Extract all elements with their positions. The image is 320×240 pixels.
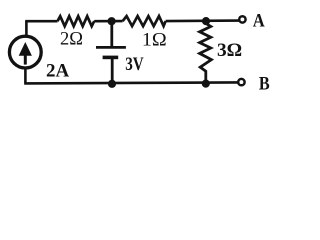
resistor R2 1ohm zigzag bbox=[123, 16, 166, 26]
svg-text:3V: 3V bbox=[125, 55, 144, 75]
node junction dot top of 3ohm bbox=[202, 17, 210, 25]
battery V1 top stem bbox=[110, 21, 113, 47]
battery V1 short plate bbox=[103, 56, 119, 60]
wire bottom rail bbox=[24, 82, 237, 83]
wire top rail segment 3 bbox=[166, 19, 239, 22]
svg-text:B: B bbox=[259, 75, 270, 95]
battery V1 bottom stem bbox=[111, 57, 114, 83]
resistor R3 3ohm vertical zigzag bbox=[200, 21, 212, 84]
battery V1 long plate bbox=[96, 46, 126, 49]
svg-text:2Ω: 2Ω bbox=[60, 30, 83, 50]
terminal B open circle bbox=[238, 79, 244, 85]
terminal A open circle bbox=[239, 16, 245, 22]
svg-text:2A: 2A bbox=[46, 61, 70, 81]
svg-text:1Ω: 1Ω bbox=[142, 31, 167, 51]
current source I1 circle bbox=[9, 36, 41, 68]
current source arrow bbox=[19, 42, 32, 56]
node junction dot bottom of 3ohm bbox=[202, 80, 210, 88]
wire top rail segment 2 bbox=[94, 20, 122, 23]
node junction dot battery bottom bbox=[108, 80, 116, 88]
wire top left vertical (source to top rail) bbox=[25, 21, 28, 35]
resistor R1 2ohm zigzag bbox=[58, 16, 95, 26]
svg-text:3Ω: 3Ω bbox=[217, 41, 242, 61]
wire bottom left vertical (source to bottom rail) bbox=[24, 69, 27, 84]
node junction dot above battery bbox=[108, 17, 116, 25]
wire top rail segment 1 bbox=[25, 20, 57, 23]
svg-text:A: A bbox=[253, 12, 266, 32]
